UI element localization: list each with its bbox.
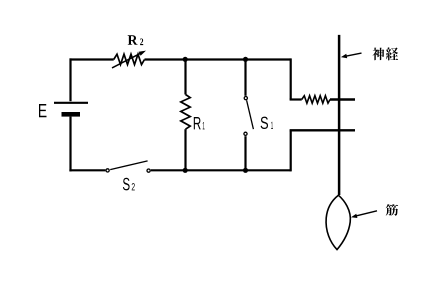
label R2 (128, 35, 138, 44)
label S1 (261, 117, 268, 129)
switch S1 blade (247, 100, 254, 129)
node junction dot top R1 (183, 57, 188, 62)
resistor R2 arrow shaft (112, 53, 142, 68)
resistor (stimulating electrode) zigzag (302, 96, 330, 104)
node junction dot top S1 (243, 57, 248, 62)
wire right branch vertical upper (290, 58, 292, 99)
node junction dot bottom R1 (183, 168, 188, 173)
label R2 subscript (140, 38, 143, 45)
lower electrode wire crossing nerve (290, 129, 355, 131)
resistor R2 arrowhead (139, 51, 146, 56)
label R1 (194, 117, 201, 129)
wire to stimulating resistor (290, 98, 302, 100)
upper electrode wire crossing nerve (330, 98, 355, 100)
switch S1 bottom contact circle (244, 132, 247, 135)
muscle lens shape (326, 195, 350, 249)
switch S2 right contact circle (147, 169, 150, 172)
resistor R2 zigzag (variable) (114, 54, 145, 64)
label 神 (nerve) (373, 48, 385, 61)
nerve vertical line (338, 35, 341, 195)
wire S1 branch upper (244, 60, 246, 96)
muscle label arrowhead (351, 214, 357, 218)
wire top horizontal right segment (145, 58, 291, 60)
label R1 subscript (203, 122, 205, 129)
label S2 (123, 178, 130, 191)
switch S2 left contact circle (106, 169, 109, 172)
nerve label arrow shaft (345, 53, 362, 56)
wire R1 branch upper (184, 60, 186, 95)
label E (39, 104, 47, 117)
muscle label arrow shaft (356, 211, 378, 216)
wire R1 branch lower (184, 129, 186, 170)
label S1 subscript (271, 122, 273, 129)
battery E short thick plate (62, 112, 81, 117)
wire top horizontal left segment (70, 58, 114, 60)
nerve label arrowhead (341, 54, 347, 58)
label S2 subscript (132, 183, 135, 190)
wire S1 branch lower (244, 136, 246, 170)
wire left vertical lower (battery to bottom) (69, 117, 71, 172)
wire right branch vertical lower (290, 130, 292, 171)
battery E long plate (54, 102, 88, 104)
label 経 (nerve) (386, 47, 398, 60)
switch S2 blade (110, 161, 147, 170)
wire left vertical upper (to battery) (69, 58, 71, 101)
wire bottom horizontal middle segment (151, 169, 291, 171)
node junction dot bottom S1 (243, 168, 248, 173)
label 筋 (muscle) (386, 204, 398, 216)
resistor R1 zigzag (181, 95, 190, 130)
wire bottom horizontal left segment (69, 169, 105, 171)
switch S1 top contact circle (244, 97, 247, 100)
